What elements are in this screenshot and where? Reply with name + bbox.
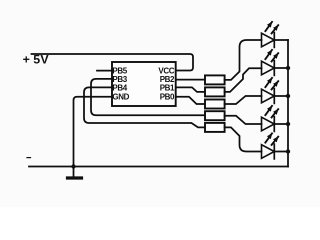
junction dot LED3/bus	[286, 94, 290, 98]
resistor R5	[205, 123, 225, 132]
svg-text:PB4: PB4	[112, 83, 127, 92]
wire R2 to LED2	[225, 68, 262, 92]
LED D1	[262, 22, 289, 48]
junction dot LED4/bus	[286, 122, 290, 126]
wire R3 to LED3	[225, 96, 262, 104]
pin PB5 stub (NC)	[97, 70, 112, 72]
junction dot LED5/bus	[286, 149, 290, 153]
wire PB4 to R5	[84, 87, 205, 127]
wire PB1 to R2	[176, 87, 205, 92]
wire R5 to LED5	[225, 127, 262, 151]
resistor R4	[205, 111, 225, 120]
resistor R1	[205, 75, 225, 84]
junction dot GND/rail	[71, 164, 75, 168]
LED D5	[262, 133, 289, 159]
svg-text:+ 5V: + 5V	[23, 52, 50, 66]
resistor R2	[205, 87, 225, 96]
wire R4 to LED4	[225, 116, 262, 124]
wire PB0 to R3	[176, 97, 205, 104]
resistor R3	[205, 100, 225, 109]
cathode bus	[287, 40, 289, 167]
junction dot LED2/bus	[286, 66, 290, 70]
ground symbol bar	[68, 176, 82, 179]
minus label tick	[27, 157, 31, 159]
svg-text:GND: GND	[112, 93, 129, 102]
svg-text:PB1: PB1	[160, 83, 175, 92]
wire PB3 to R4	[91, 79, 205, 115]
svg-text:PB0: PB0	[160, 93, 175, 102]
LED D3	[262, 78, 289, 104]
wire R1 to LED1	[225, 40, 262, 80]
IC U1 box	[112, 62, 176, 106]
wire GND pin down to ground rail	[74, 97, 113, 176]
LED D2	[262, 50, 289, 76]
+5V supply rail	[32, 54, 194, 71]
wire PB2 to R1	[176, 79, 205, 81]
LED D4	[262, 106, 289, 131]
ground rail	[29, 166, 288, 168]
